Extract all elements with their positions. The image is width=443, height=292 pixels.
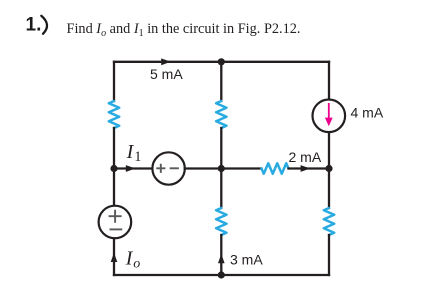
wire middle horizontal left	[114, 167, 153, 169]
node bottom of middle branch	[218, 271, 225, 278]
wire right vertical middle	[328, 132, 330, 208]
svg-text:o: o	[133, 256, 140, 271]
minus sign U1	[170, 167, 179, 169]
arrow 3 mA	[218, 254, 225, 263]
wire middle vertical upper	[220, 62, 222, 101]
svg-text:1: 1	[134, 149, 141, 165]
node left middle	[110, 165, 117, 172]
wire left vertical lower	[113, 238, 115, 275]
wire bottom	[114, 274, 329, 276]
svg-text:5 mA: 5 mA	[150, 66, 183, 82]
svg-text:3 mA: 3 mA	[230, 252, 263, 268]
node right middle	[325, 165, 332, 172]
arrow inside current source	[328, 103, 330, 118]
wire right vertical upper	[328, 62, 330, 100]
resistor 2 mA branch	[262, 163, 289, 173]
plus sign U1	[156, 164, 165, 173]
svg-text:4 mA: 4 mA	[351, 105, 384, 121]
resistor middle lower	[216, 208, 226, 235]
arrow 2 mA	[301, 165, 311, 172]
wire middle horizontal right	[289, 167, 330, 169]
minus sign V1	[110, 228, 123, 230]
svg-text:1.: 1.	[26, 15, 42, 36]
resistor right	[324, 208, 334, 235]
wire middle horizontal center	[185, 167, 262, 169]
wire top	[114, 61, 329, 63]
resistor left	[109, 101, 119, 128]
arrow 5 mA direction	[161, 58, 171, 65]
resistor middle upper	[216, 101, 226, 128]
arrow I1	[126, 165, 136, 172]
plus sign V1	[109, 210, 122, 223]
current source 4 mA	[313, 100, 346, 133]
node center	[218, 165, 225, 172]
wire left vertical middle	[113, 128, 115, 206]
arrow Io	[111, 253, 118, 262]
svg-text:2 mA: 2 mA	[289, 149, 322, 165]
svg-text:Find Io and I1 in the circuit: Find Io and I1 in the circuit in Fig. P2…	[67, 21, 301, 39]
wire right vertical lower	[328, 235, 330, 275]
node top of middle branch	[218, 58, 225, 65]
wire middle vertical center	[220, 128, 222, 208]
voltage source U1	[152, 152, 184, 184]
wire middle vertical lower	[220, 235, 222, 275]
wire left vertical upper	[113, 62, 115, 101]
voltage source V1	[99, 206, 132, 239]
